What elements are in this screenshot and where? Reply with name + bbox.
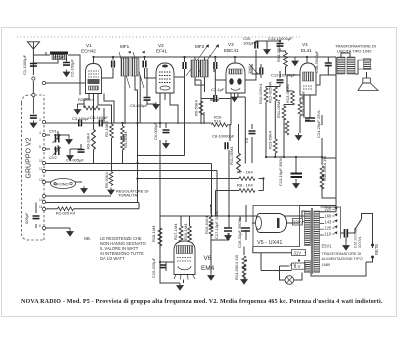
svg-text:C2-160µF: C2-160µF xyxy=(70,59,75,77)
svg-text:V3: V3 xyxy=(228,42,234,47)
svg-text:3000VL: 3000VL xyxy=(358,236,362,248)
svg-text:R11-05M4: R11-05M4 xyxy=(276,99,281,118)
svg-text:USCITA TIPO 1042: USCITA TIPO 1042 xyxy=(337,49,372,54)
svg-text:NB.: NB. xyxy=(84,236,91,241)
svg-text:R10-025K4: R10-025K4 xyxy=(258,83,263,104)
svg-text:CV2: CV2 xyxy=(49,155,58,160)
svg-text:V1: V1 xyxy=(86,43,92,48)
svg-text:R12-025M4: R12-025M4 xyxy=(267,81,272,103)
svg-text:R2-20K4: R2-20K4 xyxy=(78,97,95,102)
svg-text:MF2: MF2 xyxy=(195,44,205,49)
svg-text:EM4: EM4 xyxy=(201,265,215,272)
svg-text:C16-32µF 350VL: C16-32µF 350VL xyxy=(237,217,242,248)
svg-text:R15-25K4 1W: R15-25K4 1W xyxy=(322,156,327,181)
svg-text:GRUPPO V2: GRUPPO V2 xyxy=(26,137,33,178)
svg-text:R7 - 1K4: R7 - 1K4 xyxy=(237,170,254,175)
svg-text:3: 3 xyxy=(39,118,41,122)
svg-text:EL41: EL41 xyxy=(301,48,312,53)
svg-text:R17-1M4: R17-1M4 xyxy=(173,223,178,240)
svg-text:C5-025µF: C5-025µF xyxy=(130,103,148,108)
svg-text:MF1: MF1 xyxy=(120,44,130,49)
svg-text:C16 10000µF: C16 10000µF xyxy=(354,227,358,248)
svg-text:143: 143 xyxy=(325,219,333,224)
svg-text:125: 125 xyxy=(325,225,333,230)
svg-text:R11-05M4: R11-05M4 xyxy=(229,146,234,165)
svg-text:R13-50K4: R13-50K4 xyxy=(268,130,273,149)
svg-text:R14-50K4 1W: R14-50K4 1W xyxy=(234,255,239,280)
svg-text:6 V: 6 V xyxy=(294,264,301,269)
svg-text:C14-25µF 25VL: C14-25µF 25VL xyxy=(316,109,321,138)
svg-text:EBC41: EBC41 xyxy=(224,48,239,53)
svg-text:R8 - 1K4: R8 - 1K4 xyxy=(237,183,254,188)
svg-text:RETE: RETE xyxy=(374,244,379,255)
svg-text:R6-50K4: R6-50K4 xyxy=(194,99,199,116)
svg-text:C18-5000µF: C18-5000µF xyxy=(314,50,319,73)
svg-text:NOVA RADIO - Mod. P5 - Provvis: NOVA RADIO - Mod. P5 - Provvista di grup… xyxy=(21,299,383,305)
svg-text:E5V1: E5V1 xyxy=(322,244,333,249)
svg-text:C15-025µF: C15-025µF xyxy=(151,257,156,278)
svg-text:5: 5 xyxy=(39,145,41,149)
svg-text:V6: V6 xyxy=(204,255,212,262)
svg-text:C5-160µF: C5-160µF xyxy=(90,115,108,120)
svg-text:R19-61K4: R19-61K4 xyxy=(204,215,209,234)
svg-text:C6-005µF: C6-005µF xyxy=(153,122,158,140)
svg-text:R5-50K4: R5-50K4 xyxy=(104,171,109,188)
svg-text:160: 160 xyxy=(325,213,333,218)
svg-text:ALIMENTAZIONE TIPO: ALIMENTAZIONE TIPO xyxy=(322,256,363,261)
svg-text:C17-10µF 25VL: C17-10µF 25VL xyxy=(214,210,219,239)
svg-text:R16-1M4: R16-1M4 xyxy=(183,223,188,240)
svg-text:EF41: EF41 xyxy=(156,49,167,54)
svg-text:6: 6 xyxy=(39,224,41,228)
svg-text:C8-10000µF: C8-10000µF xyxy=(212,134,235,139)
svg-text:1889: 1889 xyxy=(322,262,331,267)
svg-text:ECH42: ECH42 xyxy=(81,49,96,54)
svg-text:220: 220 xyxy=(325,207,333,212)
svg-text:11: 11 xyxy=(39,205,43,209)
svg-text:R1-025 K4: R1-025 K4 xyxy=(56,211,76,216)
svg-text:C1-1000µF: C1-1000µF xyxy=(22,54,27,75)
svg-text:V5 - UX41: V5 - UX41 xyxy=(257,240,282,246)
svg-text:R14-05M4: R14-05M4 xyxy=(276,43,281,62)
svg-text:CV1: CV1 xyxy=(49,129,58,134)
svg-text:4: 4 xyxy=(39,131,41,135)
svg-text:R13-05M4: R13-05M4 xyxy=(285,84,290,103)
svg-text:220V: 220V xyxy=(293,220,303,225)
svg-text:R2-10K4: R2-10K4 xyxy=(104,120,109,137)
svg-text:100µF: 100µF xyxy=(53,55,65,60)
svg-text:005µF: 005µF xyxy=(24,212,29,224)
svg-text:C9: C9 xyxy=(244,137,249,143)
svg-text:TONALITA': TONALITA' xyxy=(118,193,138,198)
svg-text:C12-10000µF: C12-10000µF xyxy=(271,73,296,78)
svg-text:V4: V4 xyxy=(302,42,308,47)
svg-text:R18-1M4: R18-1M4 xyxy=(151,225,156,242)
svg-text:C13-16µF 350VL: C13-16µF 350VL xyxy=(278,155,283,186)
svg-text:R3-10K4: R3-10K4 xyxy=(86,132,91,149)
svg-text:11: 11 xyxy=(39,167,43,171)
svg-text:110: 110 xyxy=(325,231,332,236)
svg-text:TRASFORMATORE DI: TRASFORMATORE DI xyxy=(322,251,362,256)
svg-text:100µF: 100µF xyxy=(243,41,255,46)
svg-text:V2: V2 xyxy=(158,43,164,48)
svg-text:31V: 31V xyxy=(294,250,302,255)
svg-text:C7-1µF: C7-1µF xyxy=(211,87,225,92)
svg-text:DA 1/2 WATT: DA 1/2 WATT xyxy=(100,256,125,261)
